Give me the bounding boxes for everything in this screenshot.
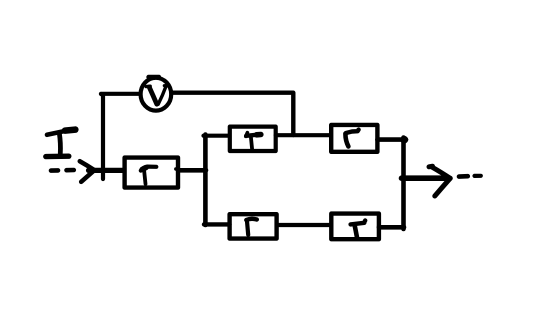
voltmeter V1 <box>141 77 172 111</box>
wire bottom branch left stub <box>204 222 230 226</box>
resistor R1 (series, value r) <box>125 158 179 188</box>
wire parallel-right vertical <box>401 138 406 230</box>
wire R3 right to right vertical, junction node <box>377 136 408 144</box>
wire top-left horizontal to voltmeter <box>101 92 139 96</box>
wire parallel-left vertical <box>203 135 208 226</box>
resistor R2 (top-left, value r) <box>230 127 276 151</box>
resistor R3 (top-right, value r) <box>331 125 377 152</box>
input current arrow (dashed) <box>51 161 94 182</box>
wire between top resistors <box>276 133 331 137</box>
resistor R5 (bottom-right, value r) <box>331 214 379 240</box>
wire top horizontal from voltmeter right, down to top branch <box>173 93 293 135</box>
wire top branch left stub <box>204 134 230 138</box>
wire between bottom resistors <box>277 223 331 227</box>
wire output tap <box>402 175 446 181</box>
wire R5 right to right vertical <box>379 225 404 230</box>
wire R1 right to parallel-left node <box>179 168 207 173</box>
wire input node to resistor R1 <box>89 168 124 173</box>
current label I <box>46 130 76 157</box>
output current arrow (dashed) <box>429 166 481 196</box>
resistor R4 (bottom-left, value r) <box>230 214 277 238</box>
wire left vertical from voltmeter down to input node <box>101 94 103 179</box>
